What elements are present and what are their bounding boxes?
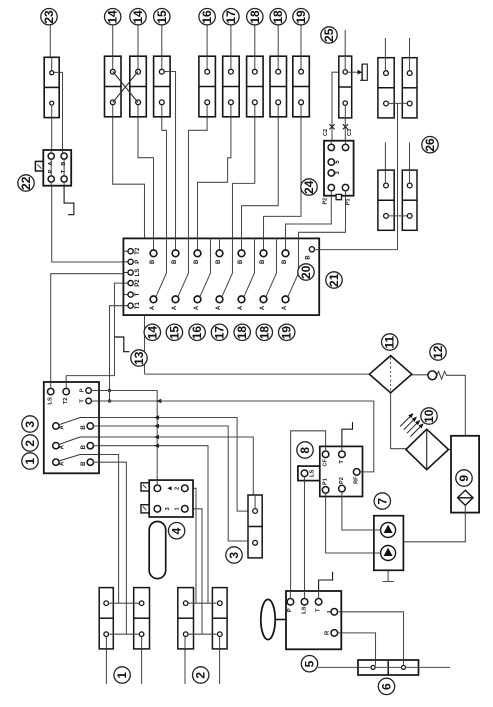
svg-text:C2: C2	[323, 129, 329, 136]
svg-text:T1: T1	[135, 302, 141, 310]
svg-text:C3: C3	[347, 129, 353, 136]
svg-text:1: 1	[115, 672, 129, 679]
svg-text:B: B	[305, 255, 311, 260]
svg-text:15: 15	[167, 326, 181, 340]
svg-text:A: A	[282, 305, 288, 310]
svg-text:P: P	[135, 260, 141, 264]
svg-text:3: 3	[165, 507, 171, 510]
svg-text:LS: LS	[135, 269, 141, 277]
svg-text:26: 26	[423, 138, 437, 152]
svg-text:14: 14	[131, 10, 145, 24]
svg-text:11: 11	[383, 336, 397, 349]
svg-text:16: 16	[190, 326, 204, 340]
svg-text:A: A	[194, 305, 200, 310]
svg-text:B: B	[260, 259, 266, 264]
svg-text:12: 12	[431, 345, 445, 359]
svg-text:18: 18	[235, 326, 249, 340]
svg-text:18: 18	[248, 10, 262, 24]
svg-text:14: 14	[145, 326, 159, 340]
svg-text:18: 18	[257, 326, 271, 340]
svg-text:CF: CF	[323, 458, 329, 466]
svg-text:4: 4	[170, 527, 184, 534]
svg-text:B: B	[194, 259, 200, 264]
svg-text:P: P	[287, 608, 293, 612]
svg-text:20: 20	[299, 265, 313, 279]
svg-text:18: 18	[271, 10, 285, 24]
svg-text:5: 5	[303, 660, 317, 667]
svg-text:7: 7	[375, 498, 389, 505]
svg-text:B: B	[282, 259, 288, 264]
svg-text:T2: T2	[63, 398, 69, 405]
svg-text:B: B	[81, 444, 87, 449]
svg-text:19: 19	[280, 326, 294, 340]
svg-text:3: 3	[227, 552, 241, 559]
svg-text:2: 2	[175, 487, 181, 490]
svg-text:3: 3	[23, 421, 37, 428]
svg-text:17: 17	[213, 326, 227, 340]
svg-text:B: B	[238, 259, 244, 264]
svg-text:LS: LS	[48, 397, 54, 405]
svg-text:RF: RF	[354, 476, 360, 484]
svg-text:A: A	[59, 461, 65, 466]
svg-text:A: A	[59, 444, 65, 449]
svg-text:25: 25	[322, 28, 336, 42]
svg-text:22: 22	[19, 176, 33, 190]
svg-text:LS: LS	[301, 606, 307, 614]
svg-text:B: B	[150, 259, 156, 264]
svg-text:1: 1	[23, 458, 37, 465]
svg-text:B: B	[81, 425, 87, 430]
svg-text:15: 15	[155, 10, 169, 24]
svg-text:A: A	[59, 425, 65, 430]
svg-text:13: 13	[132, 351, 146, 365]
svg-text:2: 2	[194, 672, 208, 679]
svg-text:P1: P1	[323, 478, 329, 485]
svg-text:T: T	[315, 608, 321, 612]
svg-text:16: 16	[200, 10, 214, 24]
svg-text:B: B	[81, 461, 87, 466]
svg-text:A: A	[150, 305, 156, 310]
svg-text:A: A	[172, 305, 178, 310]
svg-text:9: 9	[457, 475, 471, 482]
svg-text:P1: P1	[345, 198, 351, 205]
svg-text:A: A	[260, 305, 266, 310]
svg-text:24: 24	[302, 180, 316, 194]
svg-text:P2: P2	[323, 198, 329, 205]
svg-text:A: A	[216, 305, 222, 310]
svg-text:B: B	[216, 259, 222, 264]
svg-text:1: 1	[175, 507, 181, 510]
svg-text:P2: P2	[135, 279, 141, 287]
svg-text:10: 10	[422, 409, 436, 423]
svg-text:B: B	[172, 259, 178, 264]
svg-text:2: 2	[23, 440, 37, 447]
svg-text:P: P	[80, 388, 86, 392]
svg-text:T: T	[135, 292, 141, 296]
svg-text:14: 14	[106, 10, 120, 24]
svg-text:T2: T2	[135, 247, 141, 255]
svg-text:23: 23	[42, 10, 56, 24]
svg-text:8: 8	[298, 447, 312, 454]
svg-text:A: A	[238, 305, 244, 310]
svg-text:LS: LS	[309, 469, 315, 477]
svg-text:21: 21	[327, 273, 341, 287]
svg-text:17: 17	[224, 10, 238, 24]
svg-text:6: 6	[380, 683, 394, 690]
svg-text:P2: P2	[339, 477, 345, 484]
svg-text:19: 19	[294, 10, 308, 24]
